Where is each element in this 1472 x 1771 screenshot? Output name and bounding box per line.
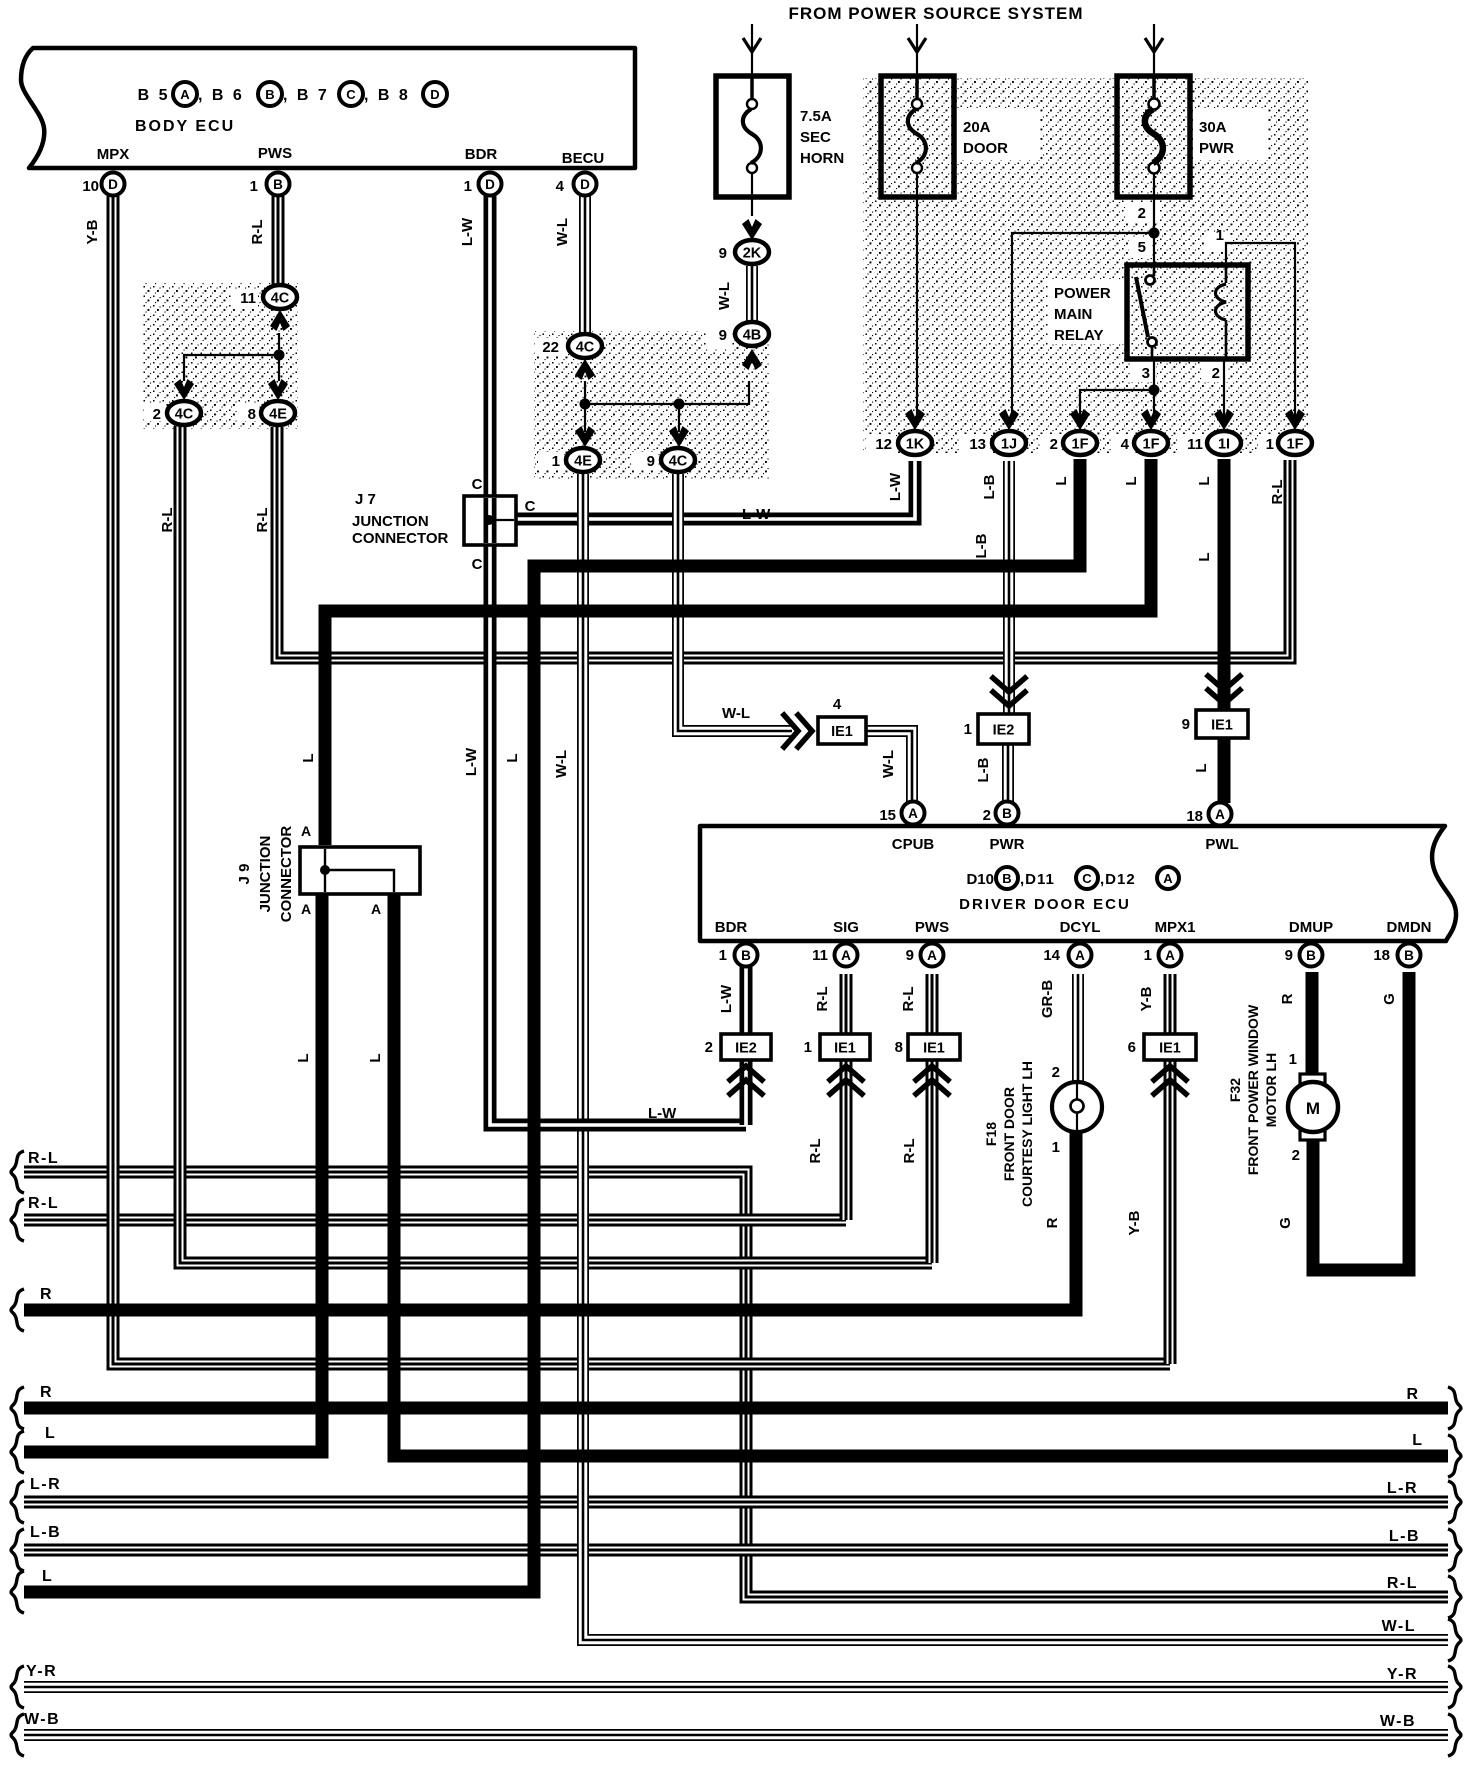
arrow into 8-4E — [268, 379, 288, 400]
svg-text:1: 1 — [964, 721, 972, 738]
wire from power source to 30A fuse — [1153, 24, 1155, 98]
arrow into 2-4C — [174, 379, 194, 400]
wire R-L from PWS to 11-4C — [272, 196, 285, 284]
svg-text:L-W: L-W — [648, 1105, 677, 1122]
svg-text:IE2: IE2 — [735, 1041, 757, 1057]
arrow into 1J — [999, 409, 1019, 430]
arrow into PWR IE2 — [993, 678, 1025, 706]
svg-text:9: 9 — [906, 947, 914, 964]
svg-text:C: C — [472, 476, 483, 493]
svg-text:R-L: R-L — [807, 1139, 824, 1164]
svg-text:PWS: PWS — [915, 919, 949, 936]
svg-text:4E: 4E — [269, 407, 287, 423]
wire L from 1I to PWL IE1 and pin 18A — [1218, 459, 1231, 803]
connector 1F pin 2 — [1063, 431, 1097, 455]
svg-text:PWR: PWR — [1199, 140, 1234, 157]
junction node at 30A fuse branch — [1149, 228, 1160, 239]
connector 1F pin 1 — [1278, 431, 1312, 455]
wire 7.5A fuse to connector 2K — [751, 172, 753, 216]
svg-text:1: 1 — [1289, 1051, 1297, 1068]
connector 2K pin 9 — [735, 240, 769, 264]
wire relay pin 1 to connector 1F — [1226, 243, 1295, 424]
svg-text:7.5A: 7.5A — [800, 108, 832, 125]
svg-text:W-L: W-L — [553, 750, 570, 778]
svg-text:W-B: W-B — [1380, 1713, 1416, 1730]
svg-text:L-W: L-W — [742, 506, 771, 523]
connector 1F pin 4 — [1134, 431, 1168, 455]
svg-text:IE1: IE1 — [1211, 718, 1233, 734]
svg-text:B 5: B 5 — [138, 87, 170, 104]
svg-text:L-W: L-W — [887, 472, 904, 501]
svg-text:L-W: L-W — [718, 984, 735, 1013]
svg-text:A: A — [1163, 871, 1173, 886]
svg-text:8: 8 — [248, 406, 256, 423]
svg-text:PWR: PWR — [990, 836, 1025, 853]
wire branch to connector 2-1F — [1080, 390, 1154, 424]
svg-text:MPX: MPX — [97, 146, 130, 163]
arrow into PWS IE1 — [916, 1066, 948, 1094]
svg-text:,D11: ,D11 — [1020, 871, 1055, 888]
svg-text:A: A — [908, 806, 918, 821]
svg-text:B: B — [1404, 948, 1414, 963]
pin 11A SIG door ECU — [835, 944, 858, 967]
svg-text:1: 1 — [464, 178, 472, 195]
svg-text:D: D — [108, 177, 118, 192]
wire L from 4-1F to J9 — [325, 459, 1151, 845]
junction node B — [674, 399, 685, 410]
pin 9B DMUP door ECU — [1300, 944, 1323, 967]
svg-text:J 7: J 7 — [355, 491, 376, 508]
svg-text:4: 4 — [1121, 436, 1130, 453]
svg-text:L-B: L-B — [1389, 1528, 1420, 1545]
F32 front power window motor LH — [1288, 1074, 1338, 1140]
svg-text:DMUP: DMUP — [1289, 919, 1333, 936]
pin 15A CPUB door ECU — [902, 802, 925, 825]
svg-text:1J: 1J — [1001, 437, 1017, 453]
svg-text:2: 2 — [1050, 436, 1058, 453]
svg-text:L: L — [1412, 1432, 1422, 1449]
wire W-L from BECU to 22-4C — [579, 196, 591, 333]
svg-text:MOTOR LH: MOTOR LH — [1263, 1053, 1279, 1127]
svg-text:1: 1 — [719, 947, 727, 964]
wire stub to 9-4C — [678, 404, 680, 432]
svg-text:DMDN: DMDN — [1387, 919, 1432, 936]
wire relay pin 3 to connector 4-1F — [1153, 359, 1155, 424]
wire Y-B stub at MPX1 — [1164, 974, 1177, 1364]
connector IE1 pin 8 (PWS) — [908, 1034, 960, 1060]
svg-text:POWER: POWER — [1054, 285, 1111, 302]
svg-text:22: 22 — [542, 339, 559, 356]
svg-text:1: 1 — [1052, 1139, 1060, 1156]
svg-text:A: A — [371, 901, 381, 917]
connector IE1 pin 6 (MPX1) — [1144, 1034, 1196, 1060]
svg-text:G: G — [1381, 993, 1398, 1005]
svg-text:W-L: W-L — [1382, 1618, 1416, 1635]
svg-text:G: G — [1277, 1217, 1294, 1229]
svg-text:2: 2 — [153, 406, 161, 423]
svg-text:Y-B: Y-B — [84, 219, 101, 244]
connector 4C pin 9 — [661, 448, 695, 472]
svg-text:13: 13 — [969, 436, 986, 453]
svg-text:W-L: W-L — [716, 282, 733, 310]
svg-text:L-B: L-B — [981, 474, 998, 499]
svg-text:D: D — [580, 177, 590, 192]
pin 14A DCYL door ECU — [1069, 944, 1092, 967]
pin 18A PWL door ECU — [1209, 803, 1232, 826]
svg-text:F18: F18 — [983, 1122, 999, 1146]
svg-text:R-L: R-L — [249, 220, 266, 245]
svg-text:BODY ECU: BODY ECU — [135, 118, 235, 135]
wire Y-R bus row — [24, 1681, 1448, 1693]
connector IE2 pin 1 (PWR) — [978, 714, 1029, 744]
svg-text:B: B — [741, 948, 751, 963]
wire W-B bus row — [24, 1729, 1448, 1741]
arrow into 1-1F — [1285, 409, 1305, 430]
svg-text:11: 11 — [812, 947, 828, 964]
wire Y-B from MPX to MPX1 IE1 — [113, 196, 1170, 1364]
svg-text:R-L: R-L — [814, 987, 831, 1012]
wire G from DMDN to window motor — [1313, 972, 1409, 1270]
wire R-L from 8-4E to connector 1-1F — [277, 427, 1290, 658]
svg-text:1: 1 — [1144, 947, 1152, 964]
wire R bus row — [24, 1402, 1448, 1415]
svg-text:J 9: J 9 — [236, 864, 253, 885]
svg-text:CONNECTOR: CONNECTOR — [278, 826, 295, 923]
svg-text:L-W: L-W — [463, 747, 480, 776]
svg-text:D: D — [485, 177, 495, 192]
svg-text:BDR: BDR — [715, 919, 748, 936]
svg-text:2K: 2K — [743, 246, 762, 262]
pin 9A PWS door ECU — [921, 944, 944, 967]
svg-text:1: 1 — [1216, 227, 1224, 244]
svg-text:A: A — [1165, 948, 1175, 963]
svg-text:3: 3 — [1142, 365, 1150, 382]
svg-text:18: 18 — [1186, 808, 1203, 825]
wire 30A fuse to relay pin 5 — [1153, 172, 1155, 265]
junction node at relay pin 3 branch — [1149, 385, 1160, 396]
svg-text:9: 9 — [647, 453, 655, 470]
svg-text:R-L: R-L — [900, 987, 917, 1012]
svg-text:Y-B: Y-B — [1138, 986, 1155, 1011]
svg-text:8: 8 — [895, 1039, 903, 1056]
svg-text:R: R — [1044, 1217, 1061, 1228]
svg-text:9: 9 — [719, 327, 727, 344]
wire L-B bus row — [24, 1544, 1448, 1557]
svg-text:IE2: IE2 — [993, 723, 1015, 739]
pin 1D BDR body ECU — [479, 173, 502, 196]
svg-text:JUNCTION: JUNCTION — [257, 836, 274, 913]
svg-text:C: C — [525, 498, 536, 515]
arrow from power source 3 — [1145, 38, 1163, 52]
wire relay pin 2 to connector 1I — [1223, 359, 1225, 424]
stipple region power source (top right) — [863, 78, 1308, 453]
connector IE1 pin 9 (PWL) — [1196, 710, 1248, 738]
wire R-L stub at SIG — [840, 974, 853, 1220]
svg-text:18: 18 — [1373, 947, 1390, 964]
svg-text:MAIN: MAIN — [1054, 306, 1092, 323]
arrow into SIG IE1 — [830, 1066, 862, 1094]
connector 4E pin 8 — [261, 401, 295, 425]
svg-text:R-L: R-L — [254, 508, 271, 533]
svg-text:R: R — [40, 1384, 52, 1401]
arrow into 1I — [1214, 409, 1234, 430]
arrow into 2K — [742, 219, 762, 240]
svg-text:L: L — [1193, 763, 1210, 772]
arrow into MPX1 IE1 — [1154, 1066, 1186, 1094]
svg-text:11: 11 — [240, 290, 256, 307]
svg-text:SEC: SEC — [800, 129, 831, 146]
svg-text:6: 6 — [1128, 1039, 1136, 1056]
connector 4C pin 11 — [263, 285, 297, 309]
svg-text:, B 8: , B 8 — [364, 87, 410, 104]
svg-text:MPX1: MPX1 — [1155, 919, 1196, 936]
wire L from J9 to bottom left — [24, 894, 322, 1452]
svg-text:B: B — [1306, 948, 1316, 963]
svg-text:B: B — [1002, 871, 1011, 886]
svg-text:IE1: IE1 — [834, 1041, 856, 1057]
stipple region around 4C/4B/4E junction (middle) — [534, 331, 770, 479]
connector 1I pin 11 — [1207, 431, 1241, 455]
junction connector J9 — [300, 847, 420, 894]
svg-text:4C: 4C — [175, 407, 194, 423]
arrow into 9-4C — [669, 426, 689, 447]
svg-text:L: L — [367, 1053, 384, 1062]
svg-text:FROM POWER SOURCE SYSTEM: FROM POWER SOURCE SYSTEM — [788, 4, 1083, 23]
svg-text:SIG: SIG — [833, 919, 859, 936]
wire W-L from 9-4C to CPUB IE1 — [678, 474, 792, 731]
svg-text:RELAY: RELAY — [1054, 327, 1103, 344]
wire R-L bus row 1 to bottom right — [24, 1172, 1448, 1597]
svg-text:1: 1 — [1266, 436, 1274, 453]
wire break braces right — [1448, 1387, 1461, 1429]
svg-text:1F: 1F — [1287, 437, 1304, 453]
svg-text:L: L — [1123, 476, 1140, 485]
svg-text:9: 9 — [719, 245, 727, 262]
svg-text:4B: 4B — [743, 328, 762, 344]
connector 4B pin 9 — [735, 322, 769, 346]
svg-text:L-W: L-W — [459, 217, 476, 246]
svg-text:, B 7: , B 7 — [283, 87, 329, 104]
wire 20A fuse to connector 1K — [916, 172, 918, 424]
arrow into CPUB IE1 — [784, 715, 812, 747]
svg-text:F32: F32 — [1227, 1078, 1243, 1102]
wire L-W from BDR through J7 to BDR IE2 — [490, 196, 746, 1125]
svg-text:D10: D10 — [966, 871, 994, 888]
svg-text:PWL: PWL — [1205, 836, 1238, 853]
svg-text:4C: 4C — [669, 454, 688, 470]
svg-text:Y-B: Y-B — [1126, 1210, 1143, 1235]
svg-text:Y-R: Y-R — [1387, 1666, 1418, 1683]
svg-text:FRONT POWER WINDOW: FRONT POWER WINDOW — [1245, 1004, 1261, 1175]
svg-text:B: B — [273, 177, 283, 192]
arrow into BDR IE2 — [730, 1066, 762, 1094]
svg-text:4: 4 — [556, 178, 565, 195]
body ECU box — [21, 48, 635, 168]
svg-text:A: A — [927, 948, 937, 963]
svg-text:2: 2 — [1212, 365, 1220, 382]
wire GR-B from DCYL to courtesy light — [1072, 974, 1084, 1084]
junction node C — [274, 350, 285, 361]
stipple region around 4C/4E junction (left) — [143, 283, 298, 429]
svg-text:A: A — [301, 823, 311, 839]
connector 4C pin 22 — [568, 334, 602, 358]
wire junction net 11-4C to 2-4C/8-4E — [184, 333, 279, 381]
svg-text:30A: 30A — [1199, 119, 1227, 136]
svg-text:L: L — [42, 1568, 52, 1585]
wire from power source to 7.5A fuse — [751, 24, 753, 98]
pin 18B DMDN door ECU — [1398, 944, 1421, 967]
svg-text:L-B: L-B — [975, 757, 992, 782]
fuse 7.5A SEC HORN — [716, 76, 789, 197]
svg-text:BECU: BECU — [562, 150, 605, 167]
svg-text:CONNECTOR: CONNECTOR — [352, 530, 449, 547]
driver door ECU box — [700, 826, 1456, 941]
svg-text:,D12: ,D12 — [1100, 871, 1136, 888]
svg-text:1K: 1K — [906, 437, 925, 453]
svg-text:R-L: R-L — [1387, 1575, 1418, 1592]
svg-text:2: 2 — [1052, 1064, 1060, 1081]
svg-text:DRIVER DOOR ECU: DRIVER DOOR ECU — [959, 896, 1131, 913]
arrow into 4-1F — [1141, 409, 1161, 430]
wire L from 2-1F to bottom left — [24, 459, 1080, 1592]
svg-text:A: A — [180, 87, 190, 102]
svg-text:W-L: W-L — [554, 218, 571, 246]
connector 4E pin 1 — [566, 448, 600, 472]
svg-text:W-L: W-L — [722, 705, 750, 722]
svg-text:A: A — [301, 901, 311, 917]
pin 4D BECU body ECU — [574, 173, 597, 196]
svg-text:L-B: L-B — [30, 1524, 61, 1541]
svg-text:14: 14 — [1043, 947, 1060, 964]
svg-text:W-B: W-B — [24, 1711, 60, 1728]
svg-text:C: C — [346, 87, 356, 102]
pin 10D MPX body ECU — [102, 173, 125, 196]
svg-text:R-L: R-L — [28, 1195, 59, 1212]
svg-text:R-L: R-L — [901, 1139, 918, 1164]
svg-text:9: 9 — [1182, 716, 1190, 733]
svg-text:9: 9 — [1285, 947, 1293, 964]
wire L-W stub at BDR — [740, 966, 753, 1125]
wire R from DMUP to window motor — [1306, 972, 1319, 1076]
fuse 20A DOOR — [881, 76, 954, 197]
connector 1J pin 13 — [992, 431, 1026, 455]
junction connector J7 — [464, 496, 516, 545]
wire W-L CPUB IE1 to pin 15A — [866, 731, 912, 802]
wire R-L from 2-4C to PWS IE1 — [180, 426, 932, 1263]
svg-text:L-R: L-R — [1387, 1480, 1418, 1497]
svg-text:CPUB: CPUB — [892, 836, 935, 853]
pin 1A MPX1 door ECU — [1159, 944, 1182, 967]
arrow into 4B — [742, 349, 762, 370]
pin 1B PWS body ECU — [267, 173, 290, 196]
wire L-B PWR IE2 to pin 2B — [1002, 741, 1014, 802]
svg-text:L: L — [1196, 552, 1213, 561]
pin 2B PWR door ECU — [996, 802, 1019, 825]
svg-text:BDR: BDR — [465, 146, 498, 163]
svg-text:4: 4 — [833, 696, 842, 713]
svg-text:1F: 1F — [1072, 437, 1089, 453]
connector IE1 pin 1 (SIG) — [820, 1034, 870, 1060]
svg-text:IE1: IE1 — [1159, 1041, 1181, 1057]
arrow into 11-4C — [270, 310, 290, 331]
wire L from J9 to bottom right — [394, 894, 1448, 1456]
svg-text:2: 2 — [1292, 1147, 1300, 1164]
svg-text:C: C — [472, 556, 483, 573]
arrow into 1-4E — [575, 426, 595, 447]
wire R from courtesy light to bottom left — [24, 1130, 1076, 1310]
svg-text:R: R — [1279, 993, 1296, 1004]
connector IE2 pin 2 (BDR) — [721, 1034, 771, 1060]
connector 1K pin 12 — [898, 431, 932, 455]
svg-text:M: M — [1306, 1099, 1320, 1118]
svg-text:L: L — [300, 753, 317, 762]
svg-text:IE1: IE1 — [923, 1041, 945, 1057]
svg-text:L: L — [295, 1053, 312, 1062]
svg-text:5: 5 — [1138, 239, 1146, 256]
svg-text:, B 6: , B 6 — [198, 87, 244, 104]
svg-text:1: 1 — [804, 1039, 812, 1056]
svg-text:R-L: R-L — [159, 508, 176, 533]
svg-text:PWS: PWS — [258, 145, 292, 162]
wire R-L stub at PWS — [926, 974, 939, 1263]
svg-text:11: 11 — [1187, 436, 1203, 453]
svg-text:A: A — [1215, 807, 1225, 822]
svg-text:R-L: R-L — [1269, 480, 1286, 505]
arrow into 22-4C — [575, 359, 595, 380]
svg-text:GR-B: GR-B — [1039, 980, 1056, 1018]
wire R-L bus row 2 to SIG IE1 — [24, 1214, 846, 1227]
svg-text:Y-R: Y-R — [26, 1663, 57, 1680]
connector 4C pin 2 — [167, 401, 201, 425]
arrow into 2-1F — [1070, 409, 1090, 430]
svg-text:10: 10 — [82, 178, 99, 195]
wire break braces left — [11, 1151, 24, 1193]
svg-text:R: R — [40, 1286, 52, 1303]
svg-text:4C: 4C — [271, 291, 290, 307]
wire W-L from 2K to 4B — [746, 266, 758, 321]
svg-text:DCYL: DCYL — [1060, 919, 1101, 936]
svg-text:R-L: R-L — [28, 1150, 59, 1167]
svg-text:B: B — [1002, 806, 1012, 821]
wire stub to 8-4E — [278, 355, 280, 381]
wire L-R bus row — [24, 1496, 1448, 1509]
svg-text:2: 2 — [705, 1039, 713, 1056]
F18 front door courtesy light LH — [1052, 1082, 1102, 1132]
wire L-B from 1J to PWR IE2 — [1003, 461, 1015, 736]
svg-text:2: 2 — [983, 807, 991, 824]
svg-text:W-L: W-L — [880, 750, 897, 778]
svg-text:A: A — [841, 948, 851, 963]
arrow into PWL IE1 — [1208, 676, 1240, 704]
wire junction net 4C/4B/4E — [585, 381, 749, 404]
wire from power source to 20A fuse — [916, 24, 918, 98]
fuse 30A PWR — [1117, 76, 1190, 197]
arrow into 1K — [905, 409, 925, 430]
wire stub to 1-4E — [584, 404, 586, 432]
svg-text:4E: 4E — [574, 454, 592, 470]
svg-text:1: 1 — [552, 453, 560, 470]
arrow from power source 2 — [908, 38, 926, 52]
arrow from power source 1 — [743, 38, 761, 52]
svg-text:12: 12 — [875, 436, 892, 453]
wire branch to connector 1J — [1012, 233, 1154, 424]
svg-text:COURTESY LIGHT LH: COURTESY LIGHT LH — [1019, 1061, 1035, 1207]
svg-text:20A: 20A — [963, 119, 991, 136]
pin 1B BDR door ECU — [735, 944, 758, 967]
svg-text:2: 2 — [1138, 205, 1146, 222]
svg-text:DOOR: DOOR — [963, 140, 1008, 157]
power main relay — [1127, 265, 1248, 359]
